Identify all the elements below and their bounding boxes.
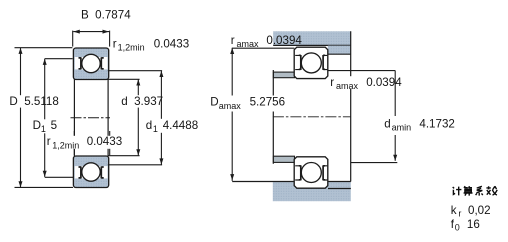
housing wall right — [350, 31, 352, 181]
centerline right bearing axis — [273, 116, 351, 118]
svg-text:D: D — [210, 96, 218, 109]
svg-text:1: 1 — [41, 124, 46, 134]
ball top right bearing — [301, 53, 321, 73]
svg-text:0.0394: 0.0394 — [366, 76, 402, 89]
shaft bottom band — [273, 182, 351, 202]
ball top left bearing — [82, 54, 100, 72]
dimension B — [73, 31, 110, 47]
svg-text:r: r — [330, 76, 334, 89]
top ring block left bearing — [73, 48, 108, 80]
svg-text:5.2756: 5.2756 — [250, 96, 285, 109]
svg-text:0.0394: 0.0394 — [266, 34, 302, 47]
dimension D — [15, 48, 74, 188]
svg-text:4.1732: 4.1732 — [419, 117, 454, 130]
svg-text:amax: amax — [219, 101, 242, 111]
svg-text:D: D — [33, 119, 41, 132]
svg-text:4.4488: 4.4488 — [163, 119, 198, 132]
ball bottom right bearing — [301, 163, 321, 183]
svg-text:r: r — [231, 34, 235, 47]
housing step top right — [328, 46, 351, 55]
svg-text:r: r — [47, 135, 51, 148]
housing top band — [273, 31, 351, 45]
svg-text:d: d — [146, 119, 152, 132]
svg-text:1: 1 — [153, 124, 158, 134]
label D1 — [31, 119, 58, 133]
shaft shoulder strip bottom — [273, 156, 294, 162]
shaft shoulder strip top — [273, 72, 294, 78]
svg-text:16: 16 — [467, 218, 480, 231]
svg-text:0.0433: 0.0433 — [154, 38, 189, 51]
svg-text:d: d — [384, 117, 390, 130]
svg-text:0.0433: 0.0433 — [87, 135, 122, 148]
dimension damin — [394, 71, 396, 161]
svg-text:0: 0 — [455, 223, 460, 233]
bottom ring block left bearing — [73, 156, 108, 188]
label D — [7, 95, 57, 107]
dimension D1 — [45, 59, 74, 178]
svg-text:D 5.5118: D 5.5118 — [9, 95, 58, 108]
svg-text:r: r — [113, 38, 117, 51]
label d — [119, 95, 166, 107]
dimension d — [108, 79, 140, 155]
bore lines left bearing — [73, 80, 75, 157]
calculation factors title (计算系数) — [453, 186, 498, 195]
svg-text:0,02: 0,02 — [468, 204, 491, 217]
svg-text:r: r — [458, 208, 461, 218]
svg-text:B 0.7874: B 0.7874 — [81, 8, 131, 21]
label r12min bottom — [46, 136, 125, 149]
label d1 — [144, 119, 200, 133]
svg-text:amin: amin — [392, 123, 412, 133]
svg-text:d 3.937: d 3.937 — [121, 95, 163, 108]
dimension Damax — [231, 48, 233, 181]
dimension d1 — [108, 71, 162, 165]
block bottom edge extension right — [328, 188, 351, 190]
label damin — [382, 116, 455, 135]
label ramax right — [329, 76, 402, 89]
bottom bearing block right — [294, 157, 328, 188]
dimension ramax right — [328, 70, 396, 72]
svg-text:amax: amax — [336, 81, 359, 91]
svg-text:1,2min: 1,2min — [52, 140, 79, 150]
centerline left bearing axis — [71, 117, 111, 119]
top bearing block right — [294, 47, 328, 78]
ball bottom left bearing — [82, 163, 100, 181]
extension lines above bottom ring — [73, 131, 75, 155]
svg-text:k: k — [451, 204, 457, 217]
label Damax — [207, 96, 285, 112]
svg-text:amax: amax — [237, 39, 260, 49]
svg-text:1,2min: 1,2min — [118, 43, 145, 53]
svg-text:5: 5 — [51, 119, 57, 132]
shaft wall — [272, 70, 274, 164]
